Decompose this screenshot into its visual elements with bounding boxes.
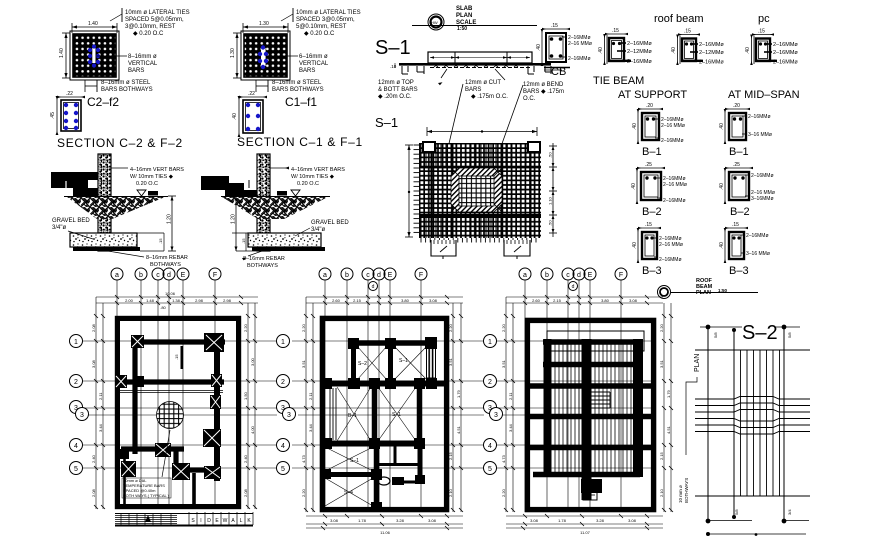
floor slab black mass C1 xyxy=(201,176,229,183)
svg-text:3–16 MMø: 3–16 MMø xyxy=(748,132,772,138)
svg-text:2.40: 2.40 xyxy=(91,454,96,463)
svg-text:1: 1 xyxy=(488,339,492,346)
plan2 column blobs xyxy=(322,337,437,512)
S-2 bottom dim xyxy=(708,533,806,535)
svg-text:2.00: 2.00 xyxy=(125,298,134,303)
svg-text:.15: .15 xyxy=(241,238,246,244)
svg-text:3: 3 xyxy=(287,412,291,419)
svg-text:& BOTT BARS: & BOTT BARS xyxy=(378,87,418,93)
svg-text:W: W xyxy=(223,518,228,524)
svg-text:.22: .22 xyxy=(248,91,255,97)
svg-text:SPACED 3@0.05mm,: SPACED 3@0.05mm, xyxy=(296,17,355,23)
svg-text:SECTION C–1 & F–1: SECTION C–1 & F–1 xyxy=(237,135,363,149)
plan2 bottom dims xyxy=(306,514,463,530)
dim 1.20 left C1 xyxy=(235,196,237,251)
svg-text:1.79: 1.79 xyxy=(666,389,671,398)
svg-text:2–16MMø: 2–16MMø xyxy=(699,60,724,66)
svg-text:S–1: S–1 xyxy=(392,412,401,418)
svg-text:S–4: S–4 xyxy=(344,490,353,496)
soil hatch C1 xyxy=(222,197,328,219)
dimension 1.30 top of C1 square xyxy=(243,23,288,33)
svg-text:TIE BEAM: TIE BEAM xyxy=(593,75,644,87)
CB column section top right of S-1 xyxy=(536,23,592,78)
svg-text:.22: .22 xyxy=(66,91,73,97)
beam section roof beam xyxy=(671,29,724,66)
end bracket left xyxy=(402,66,424,74)
plan2 room X diagonals xyxy=(325,346,427,506)
svg-text:BARS BOTHWAYS: BARS BOTHWAYS xyxy=(272,87,324,93)
svg-text:.40: .40 xyxy=(632,123,638,130)
svg-text:1: 1 xyxy=(74,339,78,346)
grid verticals plan2 xyxy=(325,280,421,512)
svg-text:3.80: 3.80 xyxy=(601,298,610,303)
row grid lines plan1 xyxy=(82,341,277,468)
svg-text:3.08: 3.08 xyxy=(428,518,437,523)
svg-text:1.40: 1.40 xyxy=(88,21,98,27)
svg-text:S–1: S–1 xyxy=(375,37,411,59)
svg-text:1:50: 1:50 xyxy=(457,26,467,32)
svg-text:W/ 10mm TIES ◆: W/ 10mm TIES ◆ xyxy=(291,174,335,180)
row grid lines plan3 xyxy=(496,341,656,468)
svg-text:1.20: 1.20 xyxy=(231,214,237,224)
left dim lines plan3 xyxy=(504,297,515,512)
svg-text:8–16mm REBAR: 8–16mm REBAR xyxy=(146,255,188,261)
svg-text:3.51: 3.51 xyxy=(659,359,664,368)
svg-text:BOTHWAYS: BOTHWAYS xyxy=(150,262,181,268)
svg-text:F: F xyxy=(213,272,217,279)
svg-text:E: E xyxy=(388,272,393,279)
svg-text:GRAVEL BED: GRAVEL BED xyxy=(311,220,349,226)
svg-text:2.20: 2.20 xyxy=(501,488,506,497)
slab plan S-1 mesh xyxy=(405,127,557,259)
svg-text:.10: .10 xyxy=(390,64,397,69)
svg-text:3.44: 3.44 xyxy=(508,423,513,432)
denser strips top/bottom xyxy=(421,143,526,238)
plan1 outer wall xyxy=(117,318,238,506)
dim .22 top xyxy=(58,96,84,98)
svg-text:.50: .50 xyxy=(548,220,553,226)
dim .22 top xyxy=(240,96,266,98)
grade marker C2 xyxy=(137,190,146,196)
svg-text:2: 2 xyxy=(488,379,492,386)
svg-text:◆ .175m O.C.: ◆ .175m O.C. xyxy=(471,94,508,100)
svg-text:B–2: B–2 xyxy=(642,206,662,218)
svg-text:4: 4 xyxy=(74,443,78,450)
svg-text:B–1: B–1 xyxy=(348,413,357,419)
plan3 bottom blob xyxy=(581,479,602,493)
svg-text:2.20: 2.20 xyxy=(301,488,306,497)
top dimension lines plan2 xyxy=(306,297,463,303)
svg-text:3: 3 xyxy=(74,405,78,412)
svg-text:2.60: 2.60 xyxy=(332,298,341,303)
svg-text:2–16MMø: 2–16MMø xyxy=(627,41,652,47)
svg-text:4.51: 4.51 xyxy=(666,425,671,434)
wall column C1 xyxy=(257,154,270,251)
svg-text:.20: .20 xyxy=(733,103,740,109)
svg-text:0.20 O.C: 0.20 O.C xyxy=(136,181,158,187)
thick slab line xyxy=(399,63,551,66)
vertical bars cluster (blue) C2 xyxy=(92,48,95,63)
svg-text:a: a xyxy=(323,272,327,279)
plan1 temperature bars note xyxy=(123,478,170,498)
svg-text:roof beam: roof beam xyxy=(654,13,704,25)
plan1 sidewalk xyxy=(115,512,253,526)
svg-text:2–16MMø: 2–16MMø xyxy=(659,257,682,263)
CB base lines xyxy=(544,67,570,69)
svg-text:4.73: 4.73 xyxy=(501,454,506,463)
svg-text:BOTH WAYS ( TYPICAL ): BOTH WAYS ( TYPICAL ) xyxy=(123,493,170,498)
plan3 stair ladder rungs xyxy=(583,392,610,408)
svg-text:E: E xyxy=(181,272,186,279)
svg-text:2.11: 2.11 xyxy=(308,392,313,400)
plan2 stair stripes right xyxy=(427,346,436,378)
svg-text:1.48: 1.48 xyxy=(146,298,155,303)
svg-text:1.78: 1.78 xyxy=(358,518,367,523)
svg-text:2.20: 2.20 xyxy=(243,323,248,332)
svg-text:2–16MMø: 2–16MMø xyxy=(627,59,652,65)
plan1 E-line bar xyxy=(181,346,184,369)
svg-text:12mm ø CUT: 12mm ø CUT xyxy=(465,80,501,86)
svg-text:.40: .40 xyxy=(719,123,725,130)
svg-text:5/8: 5/8 xyxy=(713,332,718,338)
svg-text:2: 2 xyxy=(281,379,285,386)
svg-text:B–3: B–3 xyxy=(729,265,749,277)
svg-text:10.06: 10.06 xyxy=(165,291,176,296)
foundation section C-1 & F-1 drawing xyxy=(201,154,349,269)
top dimension lines plan3 xyxy=(506,297,663,303)
svg-text:.15: .15 xyxy=(732,222,739,228)
svg-text:8–16mm ø STEEL: 8–16mm ø STEEL xyxy=(272,80,322,86)
svg-text:S–1: S–1 xyxy=(399,358,408,364)
svg-text:10mm ø LATERAL TIES: 10mm ø LATERAL TIES xyxy=(125,10,190,16)
svg-text:11.07: 11.07 xyxy=(580,530,590,535)
leader to vertical bars note xyxy=(96,55,127,57)
svg-text:2.60: 2.60 xyxy=(532,298,541,303)
stamp circle roof beam plan xyxy=(658,286,671,299)
svg-text:SECTION C–2 & F–2: SECTION C–2 & F–2 xyxy=(57,136,183,150)
svg-text:0.20 O.C: 0.20 O.C xyxy=(297,181,319,187)
svg-text:.80: .80 xyxy=(160,305,166,310)
title stamp circle top middle xyxy=(412,6,537,32)
svg-text:2–16MMø: 2–16MMø xyxy=(773,50,798,56)
row circles left plan1 xyxy=(70,335,89,475)
plan3 joists (thin verticals) xyxy=(555,340,631,477)
S-2 outer verticals with node dots xyxy=(707,327,709,521)
svg-text:2–16 MMø: 2–16 MMø xyxy=(661,123,685,129)
svg-text:.40: .40 xyxy=(745,47,751,54)
svg-text:2: 2 xyxy=(74,379,78,386)
svg-text:5/8: 5/8 xyxy=(734,509,739,515)
svg-text:GRAVEL BED: GRAVEL BED xyxy=(52,218,90,224)
dimension left of C1 square xyxy=(233,33,241,78)
svg-text:.15: .15 xyxy=(612,28,619,34)
svg-text:1.78: 1.78 xyxy=(558,518,567,523)
svg-text:◆ 0.20 O.C: ◆ 0.20 O.C xyxy=(304,31,335,37)
svg-text:a: a xyxy=(523,272,527,279)
svg-text:2–16MMø: 2–16MMø xyxy=(661,138,684,144)
beam section T1 xyxy=(598,28,652,65)
svg-text:11.06: 11.06 xyxy=(380,530,390,535)
plan2 toilet fixture xyxy=(378,477,390,485)
tie beam B-3 at mid-span xyxy=(719,222,770,277)
S-2 horizontal bar cluster with jogs xyxy=(695,397,810,435)
svg-text:1.10: 1.10 xyxy=(548,196,553,205)
svg-text:C1–f1: C1–f1 xyxy=(285,95,317,109)
svg-text:.25: .25 xyxy=(733,162,740,168)
grade line C2 xyxy=(64,196,168,198)
svg-text:PLAN: PLAN xyxy=(694,354,701,372)
svg-text:BOTHWAYS: BOTHWAYS xyxy=(684,478,689,503)
beam section pc xyxy=(745,29,798,66)
bottom supports xyxy=(431,240,456,256)
svg-text:c: c xyxy=(566,272,570,279)
svg-text:3@0.10mm, REST: 3@0.10mm, REST xyxy=(125,24,176,30)
svg-text:B–3: B–3 xyxy=(642,265,662,277)
svg-text:1.50: 1.50 xyxy=(243,391,248,400)
svg-text:b: b xyxy=(545,272,549,279)
left dim xyxy=(408,145,410,237)
footing detail C1: hatched square plan xyxy=(230,8,361,93)
svg-text:F: F xyxy=(619,272,623,279)
svg-text:S–1: S–1 xyxy=(375,115,398,130)
svg-text:VERTICAL: VERTICAL xyxy=(299,61,329,67)
tie beam B-3 at support xyxy=(632,222,683,277)
leader to vertical bars note C1 xyxy=(266,55,298,57)
svg-text:.15: .15 xyxy=(158,238,163,244)
slab rectangle xyxy=(428,52,532,63)
svg-text:4.51: 4.51 xyxy=(456,425,461,434)
svg-text:.40: .40 xyxy=(719,242,725,249)
svg-text:2–12MMø: 2–12MMø xyxy=(699,50,724,56)
leader L line xyxy=(686,377,697,455)
svg-text:BARS BOTHWAYS: BARS BOTHWAYS xyxy=(101,87,153,93)
svg-text:.50: .50 xyxy=(548,152,553,158)
svg-text:c: c xyxy=(366,272,370,279)
svg-text:BARS: BARS xyxy=(299,68,315,74)
svg-text:10 mm ø: 10 mm ø xyxy=(678,485,683,503)
svg-text:1.79: 1.79 xyxy=(456,389,461,398)
svg-text:.40: .40 xyxy=(598,47,604,54)
svg-text:2.15: 2.15 xyxy=(553,298,562,303)
svg-text:2–16MMø: 2–16MMø xyxy=(663,198,686,204)
grade marker C1 xyxy=(277,191,287,196)
svg-text:a: a xyxy=(115,272,119,279)
svg-text:3.44: 3.44 xyxy=(98,423,103,432)
svg-text:3.44: 3.44 xyxy=(308,423,313,432)
svg-text:8–16mm ø: 8–16mm ø xyxy=(128,54,157,60)
top dim xyxy=(427,131,537,133)
svg-text:4: 4 xyxy=(281,443,285,450)
plan1 footing blobs with X xyxy=(115,333,224,480)
svg-text:4.73: 4.73 xyxy=(301,454,306,463)
svg-text:BARS: BARS xyxy=(465,87,481,93)
svg-text:2.98: 2.98 xyxy=(195,298,204,303)
svg-text:2–12MMø: 2–12MMø xyxy=(627,49,652,55)
svg-text:2.08: 2.08 xyxy=(243,488,248,497)
svg-text:.15: .15 xyxy=(758,29,765,35)
grid bubbles plan3 xyxy=(519,268,627,291)
svg-text:S–1: S–1 xyxy=(350,458,359,464)
svg-text:.15: .15 xyxy=(174,354,179,360)
svg-text:5/8: 5/8 xyxy=(787,332,792,338)
svg-text:2.08: 2.08 xyxy=(91,488,96,497)
svg-text:5: 5 xyxy=(74,466,78,473)
svg-text:PLAN: PLAN xyxy=(696,290,711,296)
svg-text:4–16mm VERT BARS: 4–16mm VERT BARS xyxy=(130,167,184,173)
plan3 bottom dims xyxy=(506,514,663,530)
svg-text:3.08: 3.08 xyxy=(330,518,339,523)
svg-text:◆ 0.20 O.C: ◆ 0.20 O.C xyxy=(133,31,164,37)
svg-text:BARS ◆ .175m: BARS ◆ .175m xyxy=(523,89,564,95)
tie beam B-2 at support xyxy=(631,162,687,218)
leader lines to plan xyxy=(447,84,463,152)
svg-text:2.10: 2.10 xyxy=(659,488,664,497)
svg-text:2–16 MMø: 2–16 MMø xyxy=(659,242,683,248)
svg-text:5: 5 xyxy=(281,466,285,473)
plan2 stair stripes left xyxy=(330,388,336,440)
svg-text:2–16 MMø: 2–16 MMø xyxy=(663,182,687,188)
svg-text:2.20: 2.20 xyxy=(659,323,664,332)
mesh fringe stubs xyxy=(414,145,537,243)
plan1 inner walls xyxy=(115,336,225,507)
svg-text:.15: .15 xyxy=(551,23,558,29)
end bracket right xyxy=(528,66,551,74)
plan2 outer wall xyxy=(322,318,446,509)
inner dim arrows xyxy=(430,57,530,59)
svg-text:d: d xyxy=(167,272,171,279)
svg-text:2–16 MMø: 2–16 MMø xyxy=(568,41,592,47)
svg-text:B–2: B–2 xyxy=(730,206,750,218)
tie beam B-2 at mid-span xyxy=(719,162,775,218)
svg-text:B–1: B–1 xyxy=(642,146,662,158)
svg-text:C2–f2: C2–f2 xyxy=(87,95,119,109)
svg-text:AT SUPPORT: AT SUPPORT xyxy=(618,89,687,101)
svg-text:2–16MMø: 2–16MMø xyxy=(773,60,798,66)
svg-text:1.38: 1.38 xyxy=(172,298,181,303)
plan2 inner walls xyxy=(322,339,448,509)
grid verticals plan3 xyxy=(525,280,621,512)
svg-text:8–16mm ø STEEL: 8–16mm ø STEEL xyxy=(101,80,151,86)
floor slab black mass C2 xyxy=(51,172,98,180)
svg-text:2–16MMø: 2–16MMø xyxy=(751,173,774,179)
foundation section C-2 & F-2 drawing xyxy=(51,154,188,268)
svg-text:12mm ø BEND: 12mm ø BEND xyxy=(523,82,564,88)
left dim lines plan1 xyxy=(94,297,105,509)
mesh body xyxy=(419,143,541,238)
svg-text:1.30: 1.30 xyxy=(259,21,269,27)
svg-text:L: L xyxy=(240,518,243,524)
wall column C2 xyxy=(98,154,111,251)
svg-text:SPACED 5@0.05mm,: SPACED 5@0.05mm, xyxy=(125,17,184,23)
dim .40 left xyxy=(238,97,240,136)
svg-text:VERTICAL: VERTICAL xyxy=(128,61,158,67)
svg-text:.40: .40 xyxy=(719,183,725,190)
rebar below slab xyxy=(430,67,530,69)
left dim lines plan2 xyxy=(304,297,315,512)
svg-text:.40: .40 xyxy=(232,113,238,120)
right dim lines plan3 xyxy=(662,303,673,512)
svg-text:3.28: 3.28 xyxy=(396,518,405,523)
svg-text:O.C.: O.C. xyxy=(523,96,536,102)
svg-text:3.08: 3.08 xyxy=(91,359,96,368)
svg-text:4: 4 xyxy=(488,443,492,450)
svg-text:2.15: 2.15 xyxy=(353,298,362,303)
svg-text:S–2: S–2 xyxy=(742,322,778,344)
svg-text:D: D xyxy=(207,518,211,524)
svg-text:b: b xyxy=(345,272,349,279)
svg-text:F: F xyxy=(419,272,423,279)
svg-text:1.30: 1.30 xyxy=(230,48,236,58)
grid bubbles plan2 xyxy=(319,268,427,291)
right dim lines plan1 xyxy=(246,303,257,509)
svg-text:2.08: 2.08 xyxy=(91,323,96,332)
svg-text:c: c xyxy=(156,272,160,279)
dimension 1.40 left of C2 square xyxy=(62,33,70,78)
dim .45 left xyxy=(56,97,58,134)
svg-text:3.28: 3.28 xyxy=(596,518,605,523)
svg-text:S–2: S–2 xyxy=(358,361,367,367)
svg-text:d: d xyxy=(372,284,375,290)
svg-text:3–16 MMø: 3–16 MMø xyxy=(746,251,770,257)
tie beam B-1 at support xyxy=(632,103,685,158)
svg-text:d: d xyxy=(377,272,381,279)
svg-text:.45: .45 xyxy=(50,112,56,119)
svg-text:3: 3 xyxy=(281,405,285,412)
svg-text:b: b xyxy=(139,272,143,279)
svg-text:3.08: 3.08 xyxy=(628,518,637,523)
row circles left plan3 (shared with plan2 right) xyxy=(484,335,503,475)
heavy panel lines xyxy=(419,166,541,168)
svg-text:B–1: B–1 xyxy=(729,146,749,158)
svg-text:d: d xyxy=(572,284,575,290)
svg-text:1: 1 xyxy=(281,339,285,346)
vertical bars cluster (blue) C1 xyxy=(261,48,266,66)
S-2 top/bottom chords xyxy=(695,349,810,351)
footing C1 (to the right) xyxy=(248,233,321,247)
svg-text:4–16mm VERT BARS: 4–16mm VERT BARS xyxy=(291,167,345,173)
svg-text:◆ .20m O.C.: ◆ .20m O.C. xyxy=(378,94,412,100)
svg-text:2.98: 2.98 xyxy=(223,298,232,303)
svg-text:BOTHWAYS: BOTHWAYS xyxy=(247,263,278,269)
svg-text:5: 5 xyxy=(488,466,492,473)
top dimension lines plan1 xyxy=(96,297,258,303)
svg-text:SLAB: SLAB xyxy=(456,6,473,12)
svg-text:3.00: 3.00 xyxy=(250,357,255,366)
svg-text:4.00: 4.00 xyxy=(250,425,255,434)
plan3 top inner thin rect xyxy=(547,331,644,351)
svg-text:10mm ø LATERAL TIES: 10mm ø LATERAL TIES xyxy=(296,10,361,16)
svg-text:12mm ø TOP: 12mm ø TOP xyxy=(378,80,414,86)
svg-text:3: 3 xyxy=(494,412,498,419)
svg-text:2.15: 2.15 xyxy=(659,451,664,460)
svg-text:3/4"ø: 3/4"ø xyxy=(311,227,325,233)
svg-text:2.11: 2.11 xyxy=(508,392,513,400)
svg-text:W/ 10mm TIES ◆: W/ 10mm TIES ◆ xyxy=(130,174,174,180)
svg-text:2.40: 2.40 xyxy=(243,454,248,463)
svg-text:3.08: 3.08 xyxy=(530,518,539,523)
svg-text:8–16mm REBAR: 8–16mm REBAR xyxy=(243,256,285,262)
svg-text:BARS: BARS xyxy=(128,68,144,74)
svg-text:d: d xyxy=(577,272,581,279)
svg-text:I: I xyxy=(200,518,201,524)
svg-text:3.08: 3.08 xyxy=(629,298,638,303)
svg-text:CB: CB xyxy=(551,66,566,78)
svg-text:3.08: 3.08 xyxy=(429,298,438,303)
svg-text:3: 3 xyxy=(488,405,492,412)
svg-text:2.20: 2.20 xyxy=(301,323,306,332)
svg-text:AT MID–SPAN: AT MID–SPAN xyxy=(728,89,800,101)
svg-text:1:50: 1:50 xyxy=(718,288,728,293)
